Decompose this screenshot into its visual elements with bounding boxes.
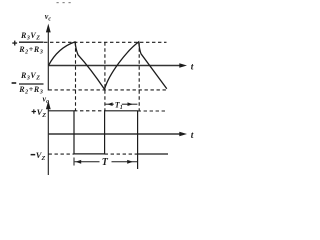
- svg-text:R2+R3: R2+R3: [18, 45, 43, 56]
- svg-text:R2+R3: R2+R3: [18, 85, 43, 96]
- svg-text:T: T: [102, 157, 109, 168]
- svg-text:t: t: [191, 131, 194, 141]
- svg-text:t: t: [191, 63, 194, 73]
